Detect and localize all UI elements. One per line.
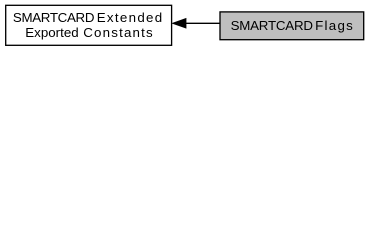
svg-text:SMARTCARD: SMARTCARD — [13, 10, 95, 25]
svg-text:Exported: Exported — [25, 25, 78, 40]
svg-text:Flags: Flags — [315, 18, 353, 33]
svg-text:Extended: Extended — [97, 10, 163, 25]
svg-text:SMARTCARD: SMARTCARD — [231, 18, 313, 33]
svg-text:Constants: Constants — [83, 25, 153, 40]
